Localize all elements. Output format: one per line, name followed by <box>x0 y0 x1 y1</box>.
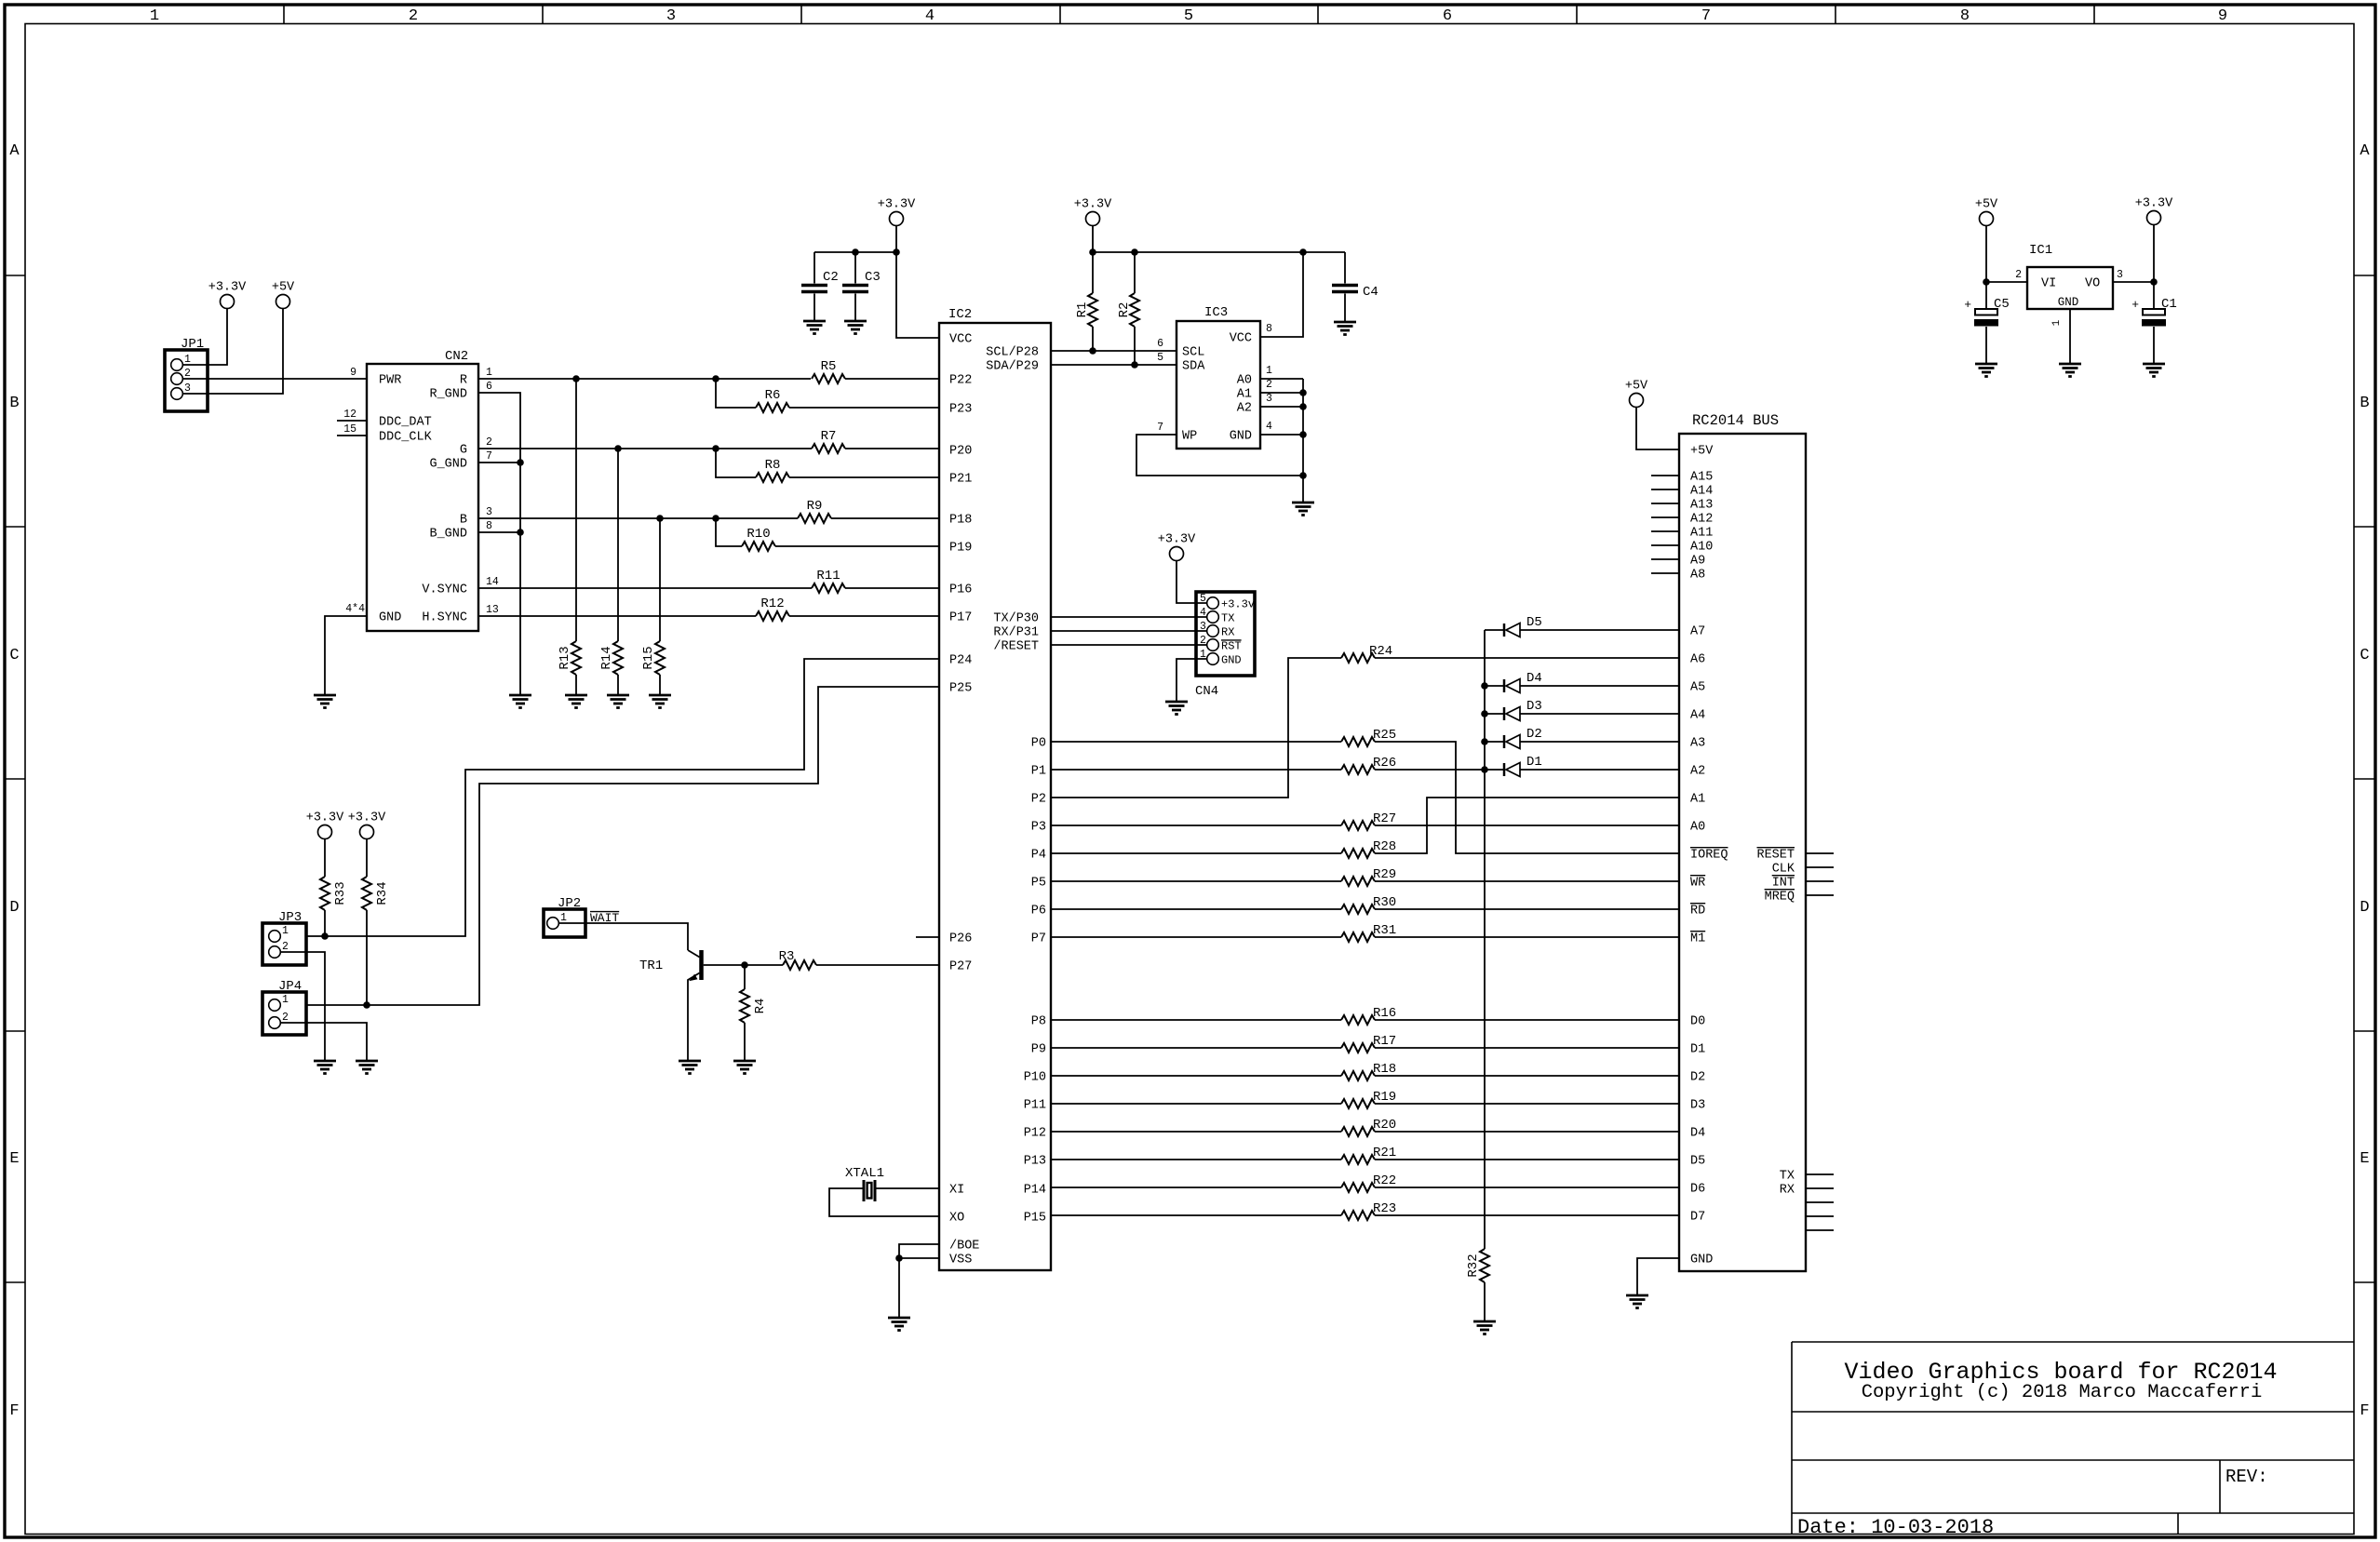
wire D4 to bus A5 <box>1520 685 1679 687</box>
wire P13 to R21 <box>1051 1159 1341 1160</box>
svg-text:R34: R34 <box>375 881 390 905</box>
svg-text:P27: P27 <box>949 960 972 974</box>
svg-text:7: 7 <box>1701 7 1711 25</box>
wire RX net <box>1051 630 1207 632</box>
svg-text:CLK: CLK <box>1772 863 1795 877</box>
wire P0 to R25 <box>1051 741 1341 743</box>
resistor R29 <box>1341 877 1375 886</box>
svg-text:SDA: SDA <box>1182 360 1205 374</box>
svg-text:D4: D4 <box>1526 671 1542 686</box>
svg-text:M1: M1 <box>1690 932 1705 946</box>
svg-text:DDC_DAT: DDC_DAT <box>379 416 432 430</box>
svg-text:RX: RX <box>1221 626 1234 639</box>
wire R16 to bus D0 <box>1375 1019 1679 1021</box>
svg-text:P25: P25 <box>949 682 972 696</box>
svg-text:A2: A2 <box>1690 765 1705 779</box>
junction rail/R2 <box>1131 248 1138 256</box>
power +5V (bus) <box>1630 394 1644 408</box>
svg-text:12: 12 <box>343 409 356 421</box>
svg-text:1: 1 <box>486 367 492 379</box>
svg-text:E: E <box>9 1150 19 1168</box>
resistor R13 <box>575 379 577 641</box>
wire R22 to bus D6 <box>1375 1187 1679 1188</box>
svg-text:RST: RST <box>1221 640 1242 653</box>
svg-text:5: 5 <box>1184 7 1193 25</box>
svg-text:SCL/P28: SCL/P28 <box>986 346 1039 360</box>
ground (R_GND/G_GND/B_GND) <box>509 694 531 697</box>
svg-text:DDC_CLK: DDC_CLK <box>379 431 433 445</box>
svg-text:GND: GND <box>379 611 401 625</box>
ground (JP3) <box>314 1060 336 1063</box>
svg-text:D1: D1 <box>1690 1043 1705 1057</box>
svg-text:5: 5 <box>1157 352 1163 364</box>
wire D5 to bus A7 <box>1520 629 1679 631</box>
svg-text:D6: D6 <box>1690 1183 1705 1197</box>
wire B_GND stub <box>478 531 520 533</box>
svg-text:C4: C4 <box>1363 285 1378 300</box>
svg-text:R6: R6 <box>765 388 781 403</box>
svg-text:4: 4 <box>1266 421 1272 433</box>
wire IC1 GND <box>2069 309 2071 364</box>
svg-text:RX: RX <box>1780 1184 1795 1198</box>
svg-text:+3.3V: +3.3V <box>1158 533 1196 547</box>
resistor R34 <box>366 839 368 878</box>
svg-text:R19: R19 <box>1373 1090 1396 1105</box>
diode D2 <box>1481 738 1488 745</box>
wire R5 to IC2 P22 <box>845 378 939 380</box>
wire R19 to bus D3 <box>1375 1103 1679 1105</box>
svg-text:R7: R7 <box>821 429 837 444</box>
wire R_GND vertical <box>478 393 520 695</box>
resistor R1 <box>1092 252 1094 293</box>
wire P10 to R18 <box>1051 1075 1341 1077</box>
junction rail/IC3 VCC <box>1299 248 1307 256</box>
junction A2 <box>1299 403 1307 410</box>
diode D5 <box>1485 629 1504 631</box>
wire R10 to IC2 P19 <box>775 545 939 547</box>
svg-text:VCC: VCC <box>949 333 972 347</box>
wire R18 to bus D2 <box>1375 1075 1679 1077</box>
junction rail/+3.3V <box>893 248 900 256</box>
svg-text:D5: D5 <box>1526 615 1542 630</box>
wire P1 to R26 <box>1051 769 1341 771</box>
svg-text:D3: D3 <box>1526 699 1542 714</box>
ground (JP4) <box>356 1060 378 1063</box>
wire +5V to VI <box>1985 226 1987 283</box>
connector CN4 <box>1196 592 1255 676</box>
svg-text:JP2: JP2 <box>558 896 581 911</box>
wire H.SYNC to R12 <box>478 615 756 617</box>
wire TX net <box>1051 616 1207 618</box>
wire P4 to R28 <box>1051 852 1341 854</box>
wire R30 to bus RD <box>1375 908 1679 910</box>
svg-text:D2: D2 <box>1526 727 1542 742</box>
resistor R28 <box>1341 849 1375 858</box>
svg-text:+5V: +5V <box>1625 380 1648 394</box>
svg-text:A12: A12 <box>1690 513 1713 527</box>
svg-text:1: 1 <box>184 354 191 366</box>
resistor R20 <box>1341 1127 1375 1136</box>
junction rail/C3 <box>852 248 859 256</box>
wire R21 to bus D5 <box>1375 1159 1679 1160</box>
wire R9 to IC2 P18 <box>831 517 939 519</box>
svg-text:C2: C2 <box>823 270 839 285</box>
svg-text:2: 2 <box>1200 635 1206 647</box>
svg-text:D: D <box>9 899 19 917</box>
connector JP1 <box>165 350 208 411</box>
svg-text:1: 1 <box>1200 649 1206 661</box>
svg-text:P13: P13 <box>1024 1155 1046 1169</box>
svg-text:R9: R9 <box>807 499 823 514</box>
svg-text:6: 6 <box>486 381 492 393</box>
svg-text:A0: A0 <box>1690 821 1705 835</box>
ground (IC1) <box>2059 363 2081 366</box>
ground (C5) <box>1975 363 1997 366</box>
svg-text:RESET: RESET <box>1756 849 1795 863</box>
junction G/R14 <box>614 445 622 452</box>
svg-text:R31: R31 <box>1373 923 1396 938</box>
svg-text:+3.3V: +3.3V <box>878 198 916 212</box>
svg-text:+3.3V: +3.3V <box>306 811 344 825</box>
svg-text:XO: XO <box>949 1212 964 1226</box>
ground (R14) <box>607 694 629 697</box>
power +3.3V (R34) <box>360 825 374 839</box>
svg-text:R12: R12 <box>760 597 784 611</box>
wire G net CN2-G to R7 <box>478 448 812 449</box>
svg-text:SCL: SCL <box>1182 346 1204 360</box>
svg-text:9: 9 <box>350 367 356 379</box>
svg-text:CN2: CN2 <box>445 349 468 364</box>
svg-text:XTAL1: XTAL1 <box>845 1166 884 1181</box>
ground (C1) <box>2143 363 2165 366</box>
resistor R16 <box>1341 1015 1375 1025</box>
svg-text:D5: D5 <box>1690 1155 1705 1169</box>
wire WAIT to TR1 collector <box>558 923 688 950</box>
svg-text:D7: D7 <box>1690 1211 1705 1225</box>
resistor R7 <box>812 444 845 453</box>
svg-text:RX/P31: RX/P31 <box>993 626 1039 640</box>
ic IC3 <box>1177 321 1260 449</box>
svg-text:C5: C5 <box>1994 297 2010 312</box>
svg-text:2: 2 <box>2015 269 2022 281</box>
resistor R12 <box>756 611 789 621</box>
svg-text:VCC: VCC <box>1230 332 1252 346</box>
power +3.3V (R33) <box>318 825 332 839</box>
svg-text:R3: R3 <box>779 949 795 964</box>
junction base/R4 <box>741 961 748 969</box>
svg-text:2: 2 <box>486 436 492 449</box>
junction R34/JP4 <box>363 1001 370 1009</box>
wire IC3 A0 A1 A2 GND to ground <box>1260 378 1303 380</box>
resistor R2 <box>1134 252 1136 293</box>
svg-text:A0: A0 <box>1237 374 1252 388</box>
resistor R15 <box>659 518 661 641</box>
wire R25 to IOREQ <box>1375 742 1679 853</box>
ground (CN2 GND) <box>314 694 336 697</box>
svg-text:C: C <box>9 647 19 664</box>
diode D4 <box>1481 682 1488 690</box>
resistor R19 <box>1341 1099 1375 1108</box>
svg-text:A13: A13 <box>1690 499 1713 513</box>
wire CN4 +3.3v pin <box>1177 561 1207 604</box>
junction R/R13 <box>572 375 580 382</box>
svg-text:2: 2 <box>282 941 289 953</box>
wire RST net <box>1051 644 1207 646</box>
power +5V (IC1) <box>1980 212 1994 226</box>
svg-text:A9: A9 <box>1690 555 1705 569</box>
svg-text:C3: C3 <box>865 270 881 285</box>
wire R8 to IC2 P21 <box>789 476 939 478</box>
svg-text:JP4: JP4 <box>278 979 302 994</box>
svg-text:P18: P18 <box>949 514 972 528</box>
svg-text:P20: P20 <box>949 445 972 459</box>
wire R24 to bus A6 <box>1375 657 1679 659</box>
svg-text:R5: R5 <box>821 359 837 374</box>
svg-text:4: 4 <box>1200 607 1206 619</box>
svg-text:R22: R22 <box>1373 1173 1396 1188</box>
resistor R25 <box>1341 737 1375 746</box>
svg-text:R26: R26 <box>1373 756 1396 771</box>
svg-text:D2: D2 <box>1690 1071 1705 1085</box>
resistor R32 <box>1480 1249 1489 1282</box>
wire B branch to R10 <box>716 518 742 546</box>
svg-text:A8: A8 <box>1690 569 1705 583</box>
svg-text:WR: WR <box>1690 877 1705 891</box>
transistor TR1 <box>699 950 704 980</box>
svg-text:R23: R23 <box>1373 1201 1396 1216</box>
svg-text:B_GND: B_GND <box>429 528 467 542</box>
svg-text:P1: P1 <box>1031 765 1046 779</box>
junction WP loop <box>1299 472 1307 479</box>
svg-text:+5V: +5V <box>1690 445 1714 459</box>
svg-text:5: 5 <box>1200 593 1206 605</box>
wire R net CN2-R to R5 <box>478 378 811 380</box>
svg-text:P16: P16 <box>949 583 972 597</box>
wire CN2 pin12 stub <box>337 420 367 422</box>
wire D3 to bus A4 <box>1520 713 1679 715</box>
wire R28 to bus A1 <box>1375 798 1679 853</box>
svg-text:R10: R10 <box>746 527 770 542</box>
svg-text:P22: P22 <box>949 374 972 388</box>
resistor R27 <box>1341 821 1375 830</box>
svg-text:/BOE: /BOE <box>949 1240 979 1254</box>
svg-text:R: R <box>460 374 467 388</box>
resistor R21 <box>1341 1155 1375 1164</box>
svg-text:E: E <box>2360 1150 2369 1168</box>
svg-text:P21: P21 <box>949 473 972 487</box>
wire rail to C2 <box>814 251 896 253</box>
connector JP3 <box>262 923 306 965</box>
wire IC3 WP loop <box>1136 435 1303 476</box>
svg-text:F: F <box>9 1402 19 1420</box>
wire V.SYNC to R11 <box>478 587 812 589</box>
wire JP4-2 to ground <box>280 1023 367 1061</box>
resistor R8 <box>756 473 789 482</box>
svg-text:D: D <box>2360 899 2369 917</box>
wire R11 to IC2 P16 <box>845 587 939 589</box>
wire R31 to bus M1 <box>1375 936 1679 938</box>
junction B/R10 branch <box>712 515 719 522</box>
svg-text:D0: D0 <box>1690 1015 1705 1029</box>
svg-text:1: 1 <box>282 925 289 937</box>
svg-text:1: 1 <box>1266 365 1272 377</box>
wire R27 to bus A0 <box>1375 825 1679 826</box>
svg-text:TX: TX <box>1780 1170 1795 1184</box>
svg-text:R15: R15 <box>641 646 656 669</box>
svg-text:+3.3V: +3.3V <box>208 281 247 295</box>
svg-text:MREQ: MREQ <box>1765 891 1795 905</box>
svg-text:P6: P6 <box>1031 905 1046 918</box>
svg-text:VO: VO <box>2085 277 2100 291</box>
wire P25 to JP4-1 <box>306 687 939 1005</box>
wire R17 to bus D1 <box>1375 1047 1679 1049</box>
svg-text:B: B <box>460 514 467 528</box>
svg-text:Date: 10-03-2018: Date: 10-03-2018 <box>1797 1516 1994 1539</box>
svg-text:VSS: VSS <box>949 1254 972 1267</box>
svg-text:A4: A4 <box>1690 709 1705 723</box>
power +3.3V (CN4) <box>1170 547 1184 561</box>
power +5V (JP1) <box>276 295 290 309</box>
capacitor C2 <box>814 252 815 284</box>
junction B_GND <box>517 529 524 536</box>
wire +3.3V rail to VCC <box>896 226 939 339</box>
svg-text:9: 9 <box>2218 7 2227 25</box>
svg-text:TX/P30: TX/P30 <box>993 612 1039 626</box>
svg-text:F: F <box>2360 1402 2369 1420</box>
svg-text:15: 15 <box>343 423 356 436</box>
resistor R24 <box>1341 653 1375 663</box>
title block <box>1791 1342 1793 1535</box>
svg-text:A: A <box>2360 142 2370 160</box>
svg-text:P11: P11 <box>1024 1099 1046 1113</box>
svg-text:P26: P26 <box>949 932 972 946</box>
wire D1 to bus A2 <box>1520 769 1679 771</box>
wire P7 to R31 <box>1051 936 1341 938</box>
svg-text:R4: R4 <box>753 999 768 1014</box>
wire R branch to R6 <box>716 379 756 408</box>
wire +3.3V to rail <box>1092 226 1094 253</box>
svg-text:RD: RD <box>1690 905 1705 918</box>
svg-text:A1: A1 <box>1237 388 1252 402</box>
svg-text:R2: R2 <box>1117 302 1132 318</box>
wire JP3-2 to ground <box>280 952 325 1061</box>
svg-text:R17: R17 <box>1373 1034 1396 1049</box>
capacitor C4 <box>1344 252 1346 284</box>
resistor R6 <box>756 403 789 412</box>
svg-text:P14: P14 <box>1024 1184 1046 1198</box>
svg-text:V.SYNC: V.SYNC <box>422 583 467 597</box>
wire P26 stub <box>916 936 939 938</box>
svg-text:TX: TX <box>1221 612 1234 625</box>
svg-text:3: 3 <box>2117 269 2123 281</box>
junction R2/SDA <box>1131 361 1138 369</box>
svg-text:P9: P9 <box>1031 1043 1046 1057</box>
svg-text:2: 2 <box>409 7 418 25</box>
ground (R15) <box>649 694 671 697</box>
ground (VSS) <box>888 1317 910 1320</box>
svg-text:WP: WP <box>1182 430 1197 444</box>
wire SCL net <box>1051 350 1177 352</box>
svg-text:G_GND: G_GND <box>429 458 467 472</box>
svg-text:+: + <box>2131 298 2139 312</box>
junction R1/SCL <box>1089 347 1096 355</box>
svg-text:P5: P5 <box>1031 877 1046 891</box>
svg-text:R24: R24 <box>1369 644 1392 659</box>
svg-text:P23: P23 <box>949 403 972 417</box>
wire R12 to IC2 P17 <box>789 615 939 617</box>
ground (C3) <box>844 320 867 323</box>
wire D2 to bus A3 <box>1520 741 1679 743</box>
svg-text:+3.3V: +3.3V <box>348 811 386 825</box>
power +3.3V (R1 R2 rail) <box>1086 212 1100 226</box>
wire JP1-1 to +3.3V <box>182 309 227 366</box>
svg-text:A: A <box>9 142 20 160</box>
power +3.3V (IC1) <box>2147 211 2161 225</box>
wire P2 to R24 <box>1051 658 1341 798</box>
resistor R31 <box>1341 932 1375 942</box>
resistor R23 <box>1341 1211 1375 1220</box>
wire B net CN2-B to R9 <box>478 517 798 519</box>
svg-text:D1: D1 <box>1526 755 1542 770</box>
wire G branch to R8 <box>716 449 756 477</box>
svg-text:XI: XI <box>949 1184 964 1198</box>
svg-text:IOREQ: IOREQ <box>1690 849 1728 863</box>
svg-text:P15: P15 <box>1024 1212 1046 1226</box>
resistor R33 <box>324 839 326 878</box>
resistor R22 <box>1341 1183 1375 1192</box>
wire CN2 GND to ground <box>325 616 367 695</box>
svg-text:+5V: +5V <box>1975 198 1998 212</box>
junction A1 <box>1299 389 1307 396</box>
svg-text:R21: R21 <box>1373 1146 1396 1160</box>
svg-text:C: C <box>2360 647 2369 664</box>
svg-text:D4: D4 <box>1690 1127 1705 1141</box>
junction VSS <box>895 1254 903 1262</box>
connector JP2 <box>544 909 585 937</box>
junction rail/R1 <box>1089 248 1096 256</box>
wire CN2 pin15 stub <box>337 435 367 436</box>
svg-text:8: 8 <box>1266 323 1272 335</box>
ic IC1 <box>2027 267 2113 309</box>
svg-text:/RESET: /RESET <box>993 640 1039 654</box>
svg-text:CN4: CN4 <box>1195 684 1218 699</box>
svg-text:VI: VI <box>2041 277 2056 291</box>
resistor R11 <box>812 583 845 593</box>
wire bus GND to ground <box>1637 1258 1679 1295</box>
svg-text:H.SYNC: H.SYNC <box>422 611 467 625</box>
svg-text:R25: R25 <box>1373 728 1396 743</box>
svg-text:REV:: REV: <box>2225 1467 2268 1487</box>
capacitor C3 <box>854 252 856 284</box>
svg-text:1: 1 <box>560 912 567 924</box>
svg-text:P2: P2 <box>1031 793 1046 807</box>
junction IC3 GND <box>1299 431 1307 438</box>
svg-text:GND: GND <box>1230 430 1252 444</box>
svg-text:A14: A14 <box>1690 485 1713 499</box>
ground (TR1 emitter) <box>679 1060 701 1063</box>
svg-text:B: B <box>9 395 19 412</box>
power +3.3V (JP1) <box>221 295 235 309</box>
connector RC2014 BUS <box>1679 434 1806 1271</box>
svg-text:IC1: IC1 <box>2029 243 2052 258</box>
wire VO to +3.3V <box>2113 281 2154 283</box>
diode D1 <box>1481 766 1488 773</box>
wire diode rail <box>1484 630 1486 1249</box>
ic IC2 <box>939 323 1051 1270</box>
junction VO/C1 <box>2150 278 2158 286</box>
resistor R30 <box>1341 905 1375 914</box>
svg-text:R33: R33 <box>333 881 348 905</box>
